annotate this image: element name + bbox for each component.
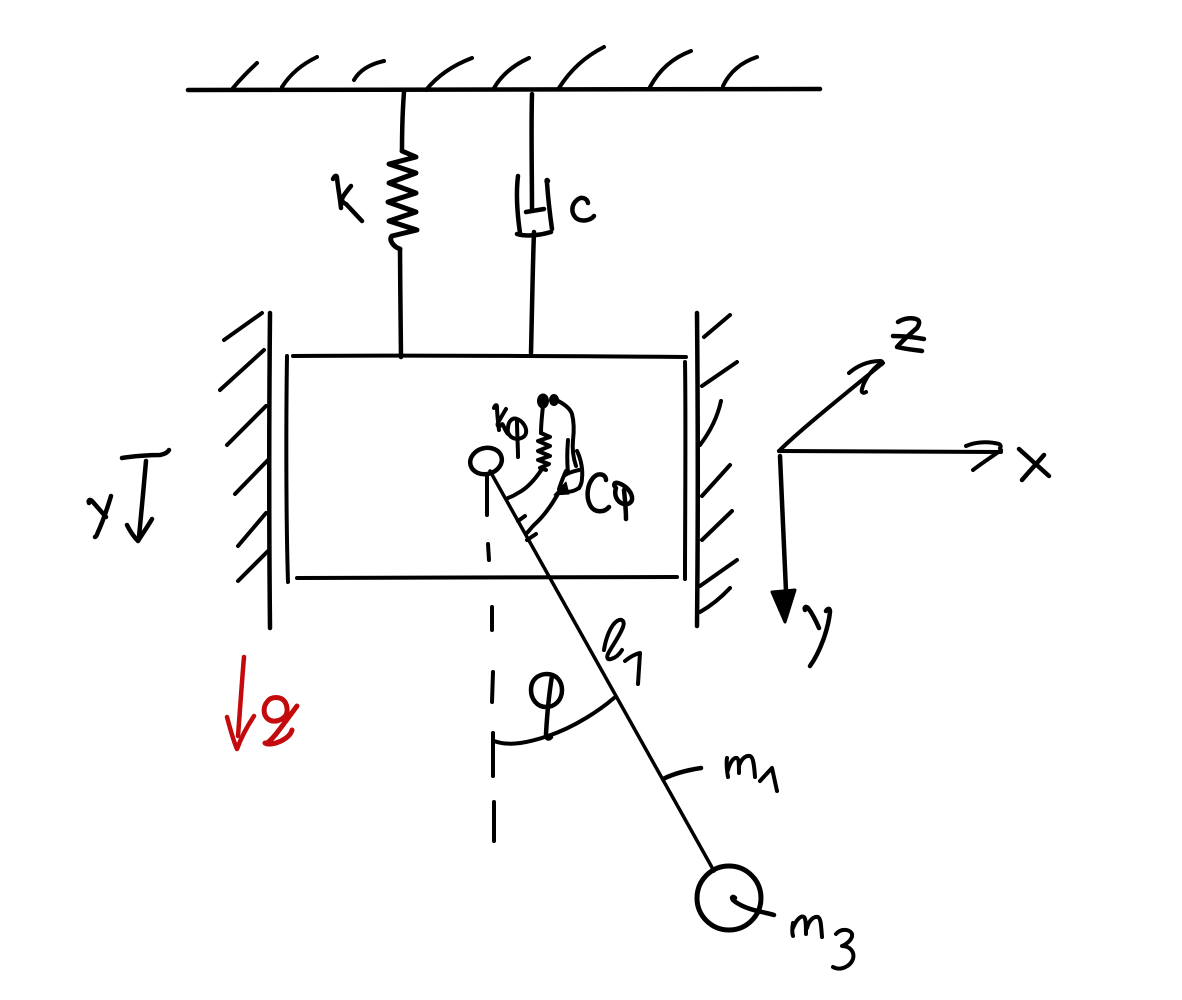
pendulum bob m3 (697, 866, 761, 930)
label x (1019, 449, 1049, 480)
rod tick marks (518, 516, 536, 540)
torsion damper c_phi arrowhead (554, 482, 569, 495)
ceiling hatch marks (233, 47, 757, 90)
spring K upper rod (402, 92, 404, 150)
right wall (695, 313, 700, 626)
spring k coil (388, 151, 417, 249)
damper c cup (517, 176, 552, 235)
spring k lower rod (400, 249, 401, 357)
label m3 (792, 917, 853, 969)
y axis arrowhead (772, 590, 795, 622)
z axis (779, 363, 883, 451)
torsion damper c_phi casing (554, 399, 576, 466)
gravity arrow g (red) (227, 657, 254, 749)
label m1 (727, 756, 777, 791)
y axis (780, 456, 786, 591)
damper c upper rod (529, 94, 534, 209)
z axis arrowhead (849, 361, 882, 393)
leader m3 (732, 897, 774, 915)
torsion spring k_phi (508, 406, 550, 498)
angle phi arc (494, 698, 614, 744)
torsion spring k_phi anchor dots (539, 396, 557, 407)
left wall hatches (220, 313, 268, 581)
label y (left) (89, 496, 111, 537)
damper c lower rod (531, 232, 534, 353)
left y displacement arrow (122, 450, 169, 541)
right wall hatches (700, 315, 737, 612)
label y (axis) (805, 607, 830, 666)
ceiling (188, 89, 820, 90)
label l1 (604, 620, 640, 684)
torsion damper c_phi arc (527, 490, 560, 533)
label phi (531, 674, 562, 738)
label z (893, 318, 924, 351)
mass box (286, 356, 686, 582)
torsion damper c_phi cup (559, 440, 582, 492)
dashed vertical reference line (487, 477, 494, 841)
left wall (267, 313, 272, 628)
label c_phi (588, 474, 633, 519)
label c (572, 198, 594, 221)
x axis (779, 451, 1001, 452)
label k_phi (494, 405, 526, 457)
damper c piston (526, 209, 544, 212)
label g (red) (264, 698, 297, 745)
leader tick m1 (663, 768, 701, 779)
pendulum rod (490, 471, 714, 871)
x axis arrowhead (966, 442, 1001, 470)
label k (333, 176, 362, 221)
pivot (467, 444, 505, 477)
